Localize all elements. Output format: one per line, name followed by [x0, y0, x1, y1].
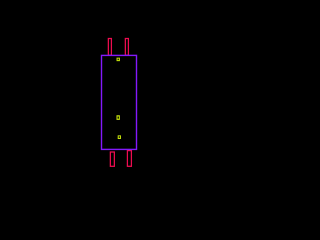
pin 2 (top-right red pad): [125, 39, 128, 56]
marker M1 (top yellow origin square): [117, 58, 120, 62]
marker M2 (middle yellow origin square): [117, 115, 120, 120]
pin 3 (bottom-left red pad): [110, 152, 114, 166]
marker M3 (bottom yellow origin square): [118, 135, 121, 139]
component body U1 (purple outline): [102, 55, 137, 149]
pin 4 (bottom-right red pad): [127, 151, 131, 167]
pin 1 (top-left red pad): [108, 39, 111, 56]
